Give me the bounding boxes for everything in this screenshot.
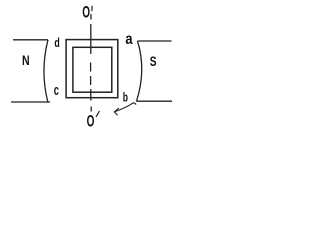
svg-text:a: a [125, 31, 132, 48]
magnet N pole bottom edge [11, 101, 50, 103]
axis lower solid segment [90, 89, 92, 101]
svg-text:N: N [22, 53, 30, 69]
prime mark of bottom O' [96, 111, 100, 117]
magnet S pole top edge [138, 40, 172, 42]
svg-text:c: c [54, 83, 59, 99]
rotation direction curved arrow pointing toward O' [114, 103, 136, 112]
magnet S pole bottom edge [137, 100, 173, 102]
magnet N pole face (curved, facing coil) [44, 40, 48, 102]
svg-text:O: O [87, 111, 95, 130]
svg-text:O: O [82, 3, 90, 21]
svg-text:S: S [150, 54, 157, 70]
magnet N pole top edge [13, 39, 48, 41]
svg-text:b: b [123, 90, 128, 105]
arrowhead of rotation arrow [114, 108, 119, 115]
axis upper solid segment O [90, 14, 92, 54]
coil outer turn (rectangle abcd) [66, 40, 118, 98]
axis dash below coil [90, 107, 92, 112]
magnet S pole face (curved, facing coil) [137, 41, 142, 101]
prime mark of top O [91, 6, 93, 11]
svg-text:d: d [54, 35, 59, 50]
axis dashed segment inside coil [90, 63, 92, 86]
coil inner turn (rectangle) [73, 47, 112, 92]
